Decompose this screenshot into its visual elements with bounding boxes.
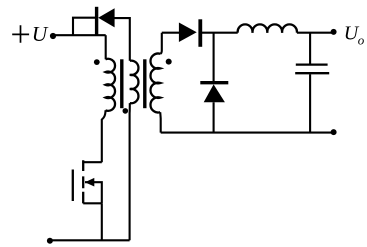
wire primary top lead <box>105 35 107 59</box>
transformer reset winding dot <box>123 108 129 114</box>
wire primary bottom rail <box>50 239 130 241</box>
diode VD1 triangle <box>179 23 197 43</box>
wire source to bottom rail <box>101 203 103 240</box>
diode VD1 cathode bar <box>198 19 202 47</box>
wire freewheel diode bottom <box>213 102 215 132</box>
transformer primary winding <box>106 59 116 111</box>
wire +U rail <box>56 34 106 36</box>
svg-text:U: U <box>32 22 49 46</box>
terminal dot +U <box>50 33 56 39</box>
wire output bottom rail <box>161 132 334 134</box>
terminal dot input minus <box>47 238 53 244</box>
wire inductor to output <box>297 32 334 34</box>
capacitor C top plate <box>296 63 328 65</box>
MOSFET body line <box>85 182 102 203</box>
transformer secondary winding <box>150 54 160 113</box>
MOSFET body arrow <box>85 178 94 187</box>
wire secondary top lead <box>160 33 162 54</box>
diode VD3 triangle <box>98 8 114 27</box>
wire secondary rail to rectifier <box>162 32 180 34</box>
wire primary bottom to MOSFET drain <box>102 110 106 162</box>
MOSFET gate bar <box>72 170 74 202</box>
wire snubber loop left and top <box>73 18 95 36</box>
wire freewheel diode top <box>213 33 215 81</box>
wire secondary bottom lead <box>159 112 162 132</box>
inductor L <box>238 24 297 32</box>
transformer primary winding dot <box>94 59 100 65</box>
wire VD3 to reset winding top <box>114 18 130 61</box>
wire reset winding bottom to source rail <box>129 103 131 240</box>
MOSFET channel dashes <box>82 160 84 203</box>
MOSFET source stub <box>83 202 102 204</box>
capacitor C bottom plate <box>295 72 329 74</box>
diode VD2 cathode bar <box>200 81 228 84</box>
terminal dot output minus <box>331 129 337 135</box>
diode VD3 cathode bar <box>95 7 98 35</box>
svg-text:o: o <box>358 33 365 48</box>
transformer core bar left <box>120 59 123 108</box>
MOSFET drain stub <box>83 161 102 163</box>
transformer reset winding <box>130 61 139 104</box>
diode VD2 triangle <box>204 84 225 102</box>
wire capacitor top <box>309 33 311 64</box>
transformer core bar right <box>143 59 146 108</box>
wire rectifier to inductor <box>202 32 238 34</box>
label + (input polarity) <box>12 25 29 42</box>
transformer secondary winding dot <box>166 59 172 65</box>
wire capacitor bottom <box>309 74 311 132</box>
terminal dot output plus <box>331 29 337 35</box>
